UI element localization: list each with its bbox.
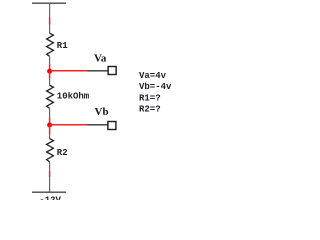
- wire: gray segment into R2: [49, 134, 51, 139]
- wire: node B to Vb terminal, gray part: [88, 124, 108, 126]
- wire: gray segment to bottom rail: [49, 177, 51, 192]
- wire: red segment above R1: [49, 18, 51, 25]
- svg-text:Va: Va: [94, 52, 107, 64]
- svg-text:Vb=-4v: Vb=-4v: [139, 82, 172, 92]
- terminal square Vb: [108, 122, 116, 130]
- wire: node A down, red segment: [49, 71, 51, 78]
- wire: red segment into node A: [49, 64, 51, 71]
- wire: red segment below R2: [49, 171, 51, 177]
- svg-text:Va=4v: Va=4v: [139, 71, 167, 81]
- wire: rail to R1 (gray upper part): [49, 3, 51, 17]
- resistor 10kOhm (zigzag): [47, 85, 54, 108]
- node A (junction dot): [47, 69, 52, 74]
- wire: R2 down (gray): [49, 162, 51, 171]
- wire: node B down, red segment: [49, 125, 51, 134]
- svg-text:10kOhm: 10kOhm: [57, 92, 90, 102]
- svg-text:R2=?: R2=?: [139, 105, 161, 115]
- terminal square Va: [108, 67, 116, 75]
- -12V power rail bar (bottom): [32, 191, 66, 193]
- wire: R1 to node A (gray): [49, 56, 51, 64]
- wire: node A to Va terminal, gray part: [88, 70, 109, 72]
- wire: gray segment into middle resistor: [49, 79, 51, 86]
- node B (junction dot): [47, 123, 52, 128]
- wire: red segment into node B: [49, 117, 51, 125]
- wire: node B to Vb terminal, red part: [50, 124, 88, 126]
- resistor R2 (zigzag): [47, 139, 54, 162]
- +12V power rail bar (top): [32, 2, 66, 4]
- resistor R1 (zigzag): [47, 33, 54, 56]
- wire: gray segment into R1: [49, 25, 51, 34]
- svg-text:R1=?: R1=?: [139, 93, 161, 103]
- svg-text:-12V: -12V: [39, 195, 61, 200]
- svg-text:Vb: Vb: [95, 106, 109, 118]
- svg-text:R2: R2: [57, 148, 68, 158]
- svg-text:R1: R1: [57, 41, 68, 51]
- wire: middle resistor to node B (gray): [49, 108, 51, 117]
- wire: node A to Va terminal, red part: [50, 70, 88, 72]
